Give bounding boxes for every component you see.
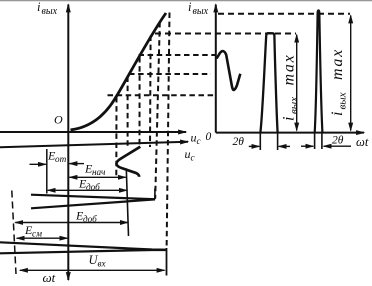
svg-text:c: c [197, 136, 201, 146]
svg-text:см: см [32, 229, 42, 239]
dashed level line h5 [108, 94, 216, 96]
transfer characteristic curve [71, 13, 167, 130]
2theta-2 right external arrow [324, 145, 351, 147]
pulse 2 left base tick [314, 133, 316, 149]
i_vyh_max rotated label 1 [281, 53, 301, 121]
wedge 1 lower envelope line [31, 199, 155, 208]
svg-text:доб: доб [86, 182, 100, 192]
dashed level line h1 (second pulse peak level) [218, 13, 350, 15]
current pulse 2 [315, 10, 323, 132]
svg-text:max: max [281, 53, 298, 85]
E_ot right external arrow [70, 163, 85, 165]
svg-text:2θ: 2θ [332, 135, 344, 147]
current pulse 1 [260, 33, 277, 132]
right boundary tick x~127 [126, 169, 128, 237]
output distorted wave near origin [217, 51, 241, 90]
right boundary solid bottom part of x~166.5 line [166, 248, 168, 276]
svg-text:i: i [281, 117, 298, 121]
dashed level line h2 (first pulse peak level) [155, 33, 296, 35]
svg-text:вых: вых [337, 92, 349, 109]
dashed level line h3 [139, 54, 216, 56]
svg-text:i: i [188, 0, 192, 14]
svg-text:max: max [329, 48, 346, 80]
dashed level line h4 [129, 73, 211, 75]
left boundary dashed tick x~14 [12, 191, 16, 275]
dashed construction vertical v4 at u_c4 [149, 36, 152, 148]
right plot vertical axis [215, 5, 217, 133]
E_sm dimension arrow [17, 237, 68, 239]
right plot horizontal axis [216, 132, 364, 134]
svg-text:нач: нач [92, 167, 106, 177]
svg-text:O: O [54, 113, 63, 127]
svg-text:i: i [329, 112, 346, 116]
svg-text:0: 0 [206, 131, 212, 143]
E_ot left external arrow [30, 163, 46, 165]
svg-text:вых: вых [193, 6, 209, 17]
left plot vertical axis (i_vyh) with top arrow and bottom omega-t arrow [67, 5, 69, 281]
svg-text:от: от [55, 154, 67, 164]
i_vyh_max dimension 2 [350, 16, 352, 131]
i_vyh_max dimension 1 [296, 35, 298, 131]
svg-text:вх: вх [98, 259, 107, 269]
E_dob 1 dimension arrow [48, 189, 127, 191]
svg-text:ωt: ωt [356, 135, 369, 149]
left plot horizontal axis u_c [0, 131, 186, 133]
dashed construction vertical v5 at u_c5 [155, 22, 160, 199]
E_ot boundary tick [46, 149, 48, 194]
dashed construction vertical v2 at u_c2 [127, 77, 129, 147]
pulse 1 right base tick [277, 133, 279, 150]
2theta-1 right external arrow [279, 145, 290, 147]
2theta-1 left external arrow [249, 145, 259, 147]
dashed construction vertical v6 at curve top [167, 13, 170, 250]
dashed construction vertical v3 at u_c3 [139, 57, 141, 146]
pulse 2 right base tick [321, 133, 323, 149]
pulse 1 left base tick [259, 133, 261, 150]
svg-text:доб: доб [83, 214, 97, 224]
dashed construction vertical v1 at u_c1 [115, 97, 117, 176]
svg-text:2θ: 2θ [233, 136, 245, 148]
svg-text:c: c [191, 153, 195, 163]
U_vx dimension arrow [20, 269, 165, 271]
wedge 1 upper envelope line (compressed input sine) [31, 195, 155, 200]
second u_c axis (tilted) [0, 142, 188, 147]
svg-text:вых: вых [42, 6, 58, 17]
svg-text:i: i [37, 0, 41, 14]
page top edge line [0, 0, 372, 2]
E_dob 2 dimension arrow [15, 222, 128, 224]
wedge 2 upper envelope line (large input sine U_vx) [0, 242, 166, 249]
wedge 1 apex riser [154, 189, 156, 200]
svg-text:вых: вых [288, 97, 300, 114]
i_vyh_max rotated label 2 [329, 48, 349, 116]
wedge 2 lower envelope line [0, 250, 166, 253]
input sine wave (one period, time downward) [116, 147, 140, 177]
E_nach dimension arrow [70, 176, 126, 178]
svg-text:ωt: ωt [43, 270, 56, 285]
2theta-2 left external arrow [301, 145, 313, 147]
